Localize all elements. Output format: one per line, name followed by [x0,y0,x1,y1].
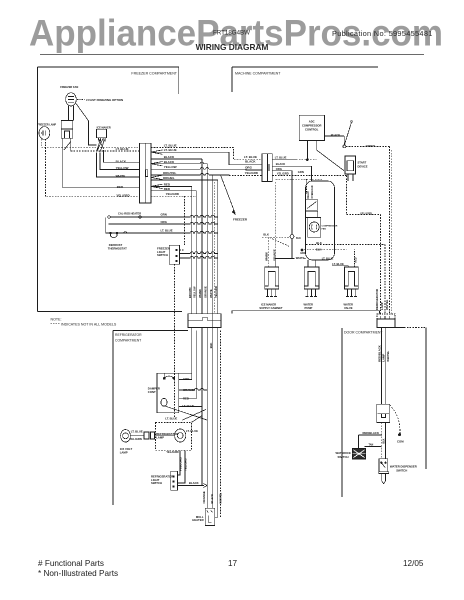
svg-text:BLACK: BLACK [116,160,127,164]
svg-text:WHITE: WHITE [296,256,305,260]
svg-text:GRN: GRN [161,212,167,216]
svg-text:YEL/GRD: YEL/GRD [116,194,130,198]
svg-text:MACHINE COMPARTMENT: MACHINE COMPARTMENT [235,72,281,76]
svg-text:START: START [358,161,367,165]
svg-text:OVERLOAD: OVERLOAD [311,185,314,198]
svg-text:# FAST FREEZING OPTION: # FAST FREEZING OPTION [86,98,123,102]
svg-text:# Functional Parts: # Functional Parts [38,559,104,568]
svg-text:YEL/ORG: YEL/ORG [184,458,188,471]
svg-text:BLK: BLK [316,247,322,251]
svg-text:ICE MAKER: ICE MAKER [97,127,111,130]
svg-text:WH/BK: WH/BK [198,289,202,298]
svg-text:LAMP: LAMP [120,450,128,454]
svg-text:WH/YEL: WH/YEL [386,351,390,362]
svg-text:BLACK: BLACK [164,155,175,159]
svg-text:PUMP: PUMP [305,306,313,310]
svg-text:FAN: FAN [322,228,327,231]
svg-text:ORANGE: ORANGE [183,388,195,392]
svg-text:WATER: WATER [304,302,314,306]
svg-text:YELLOW: YELLOW [164,165,177,169]
svg-text:LAMP: LAMP [156,435,164,439]
svg-text:ICE MAKER: ICE MAKER [261,302,276,306]
svg-text:REFRIGERATOR: REFRIGERATOR [115,333,142,337]
svg-text:SWITCH: SWITCH [338,455,349,459]
svg-text:GRN: GRN [183,377,189,381]
svg-text:WIRING DIAGRAM: WIRING DIAGRAM [196,42,269,52]
svg-text:PINK/ORG: PINK/ORG [179,457,183,471]
svg-text:FRT18G4BW: FRT18G4BW [213,30,250,37]
svg-text:ORG/BL: ORG/BL [163,176,175,180]
svg-text:BLACK: BLACK [331,133,340,137]
svg-text:RED: RED [355,257,358,262]
svg-text:17: 17 [228,559,238,568]
svg-text:HEATER: HEATER [192,518,203,522]
svg-text:LT. BLUE: LT. BLUE [186,429,198,433]
svg-text:CONT: CONT [148,390,156,394]
svg-text:GRN: GRN [300,252,306,255]
svg-text:YEL/GRN: YEL/GRN [129,437,141,441]
svg-text:Publication No: 5995455481: Publication No: 5995455481 [332,29,433,38]
svg-text:GRN: GRN [298,170,304,174]
svg-text:RELAY: RELAY [307,190,310,198]
svg-text:RED: RED [183,396,189,400]
svg-text:INDICATES NOT IN ALL MODELS: INDICATES NOT IN ALL MODELS [61,322,117,326]
svg-text:LT. BLUE: LT. BLUE [244,155,257,159]
svg-text:YEL/GRD: YEL/GRD [245,171,259,175]
svg-text:VALVE: VALVE [344,306,353,310]
svg-text:WHITE: WHITE [116,174,126,178]
svg-text:SWITCH: SWITCH [157,253,168,257]
svg-text:LT. BLUE: LT. BLUE [332,262,344,266]
svg-text:LT. BLUE: LT. BLUE [164,144,177,148]
svg-text:ORG: ORG [276,167,282,171]
svg-text:WH/YEL: WH/YEL [385,299,389,310]
svg-text:12/05: 12/05 [403,559,424,568]
svg-text:CAL-ROD HEATER: CAL-ROD HEATER [118,211,141,215]
svg-text:RED: RED [164,187,171,191]
svg-text:BLACK: BLACK [164,160,175,164]
svg-text:RED/BLACK: RED/BLACK [377,345,381,361]
svg-text:LT. BLUE: LT. BLUE [165,417,177,421]
svg-text:FREEZER FAN: FREEZER FAN [60,85,78,89]
svg-text:LT. BLUE: LT. BLUE [275,156,287,160]
svg-text:ORANGE: ORANGE [204,286,208,298]
svg-text:BLACK: BLACK [276,162,285,166]
svg-text:BLACK: BLACK [210,494,214,504]
svg-text:LT. BLUE: LT. BLUE [161,229,173,233]
svg-text:ORG: ORG [245,166,253,170]
svg-text:ORG/YEL: ORG/YEL [163,171,177,175]
svg-text:LT. BLUE: LT. BLUE [116,147,129,151]
svg-text:BLK: BLK [209,343,213,349]
svg-text:WHITE: WHITE [209,289,213,298]
svg-text:LAMP: LAMP [380,302,384,310]
svg-text:COM: COM [397,440,404,444]
svg-text:BLK: BLK [383,438,386,443]
svg-text:LT. BLUE: LT. BLUE [164,148,177,152]
svg-text:WH/YEL: WH/YEL [219,493,223,504]
svg-text:* Non-Illustrated Parts: * Non-Illustrated Parts [38,569,118,578]
svg-text:DEVICE: DEVICE [358,164,368,168]
svg-text:LT. BLUE: LT. BLUE [131,429,143,433]
svg-text:SWITCH: SWITCH [151,481,162,485]
svg-text:YELLOW: YELLOW [116,166,129,170]
svg-text:YELLOW: YELLOW [193,286,197,298]
svg-text:LT. BLUE: LT. BLUE [182,404,194,408]
svg-text:DOOR COMPARTMENT: DOOR COMPARTMENT [344,331,383,335]
svg-text:BROWN: BROWN [188,287,192,298]
svg-text:ORANGE: ORANGE [273,249,277,261]
svg-text:YEL/GRD: YEL/GRD [166,450,178,454]
svg-text:ORG: ORG [161,220,167,224]
svg-text:FREEZER: FREEZER [233,218,248,222]
svg-text:NOTE:: NOTE: [51,318,62,322]
svg-text:GREEN: GREEN [366,144,376,148]
svg-text:RED: RED [117,185,124,189]
svg-text:BLACK: BLACK [245,160,256,164]
svg-text:FREEZER LAMP: FREEZER LAMP [38,124,57,127]
svg-text:REFRIGERATOR: REFRIGERATOR [375,289,379,310]
svg-text:RED/BLACK: RED/BLACK [363,431,379,435]
svg-text:YEL/GRD: YEL/GRD [277,172,289,176]
svg-text:YEL/GRD: YEL/GRD [166,192,180,196]
svg-text:LT. BLUE: LT. BLUE [322,257,334,261]
svg-text:ORANGE: ORANGE [202,491,206,503]
svg-text:THERMOSTAT: THERMOSTAT [108,247,127,251]
svg-text:BLK: BLK [296,237,301,240]
svg-text:FREEZER COMPARTMENT: FREEZER COMPARTMENT [131,72,177,76]
svg-text:COMPRESSOR: COMPRESSOR [302,124,321,128]
svg-text:BLACK: BLACK [189,481,199,485]
svg-text:COMPARTMENT: COMPARTMENT [115,339,141,343]
svg-text:YEL/GRD: YEL/GRD [360,211,372,215]
svg-text:COMPRESSOR: COMPRESSOR [322,226,338,228]
svg-text:TAN: TAN [369,443,374,446]
svg-text:BLK: BLK [316,241,322,245]
svg-text:YEL/GRD: YEL/GRD [214,286,218,298]
svg-text:WH/BK: WH/BK [265,252,269,261]
svg-text:ADC: ADC [309,120,315,124]
svg-text:LAMP: LAMP [382,354,386,362]
svg-text:CONTROL: CONTROL [305,128,319,132]
svg-text:SWITCH: SWITCH [396,468,407,472]
svg-text:SUPPLY CABINET: SUPPLY CABINET [259,306,283,310]
svg-text:WATER: WATER [344,302,354,306]
svg-text:BLK: BLK [263,233,269,237]
